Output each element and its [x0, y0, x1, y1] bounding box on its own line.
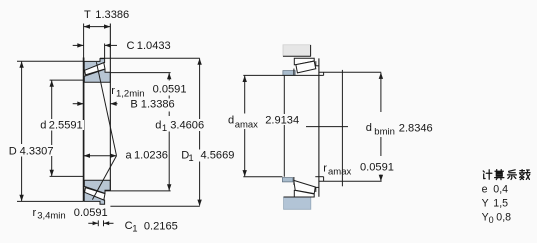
- dimension d1 arrowheads: [167, 73, 171, 79]
- cone upper: [84, 69, 110, 82]
- dimension damax vertical line: [244, 76, 246, 114]
- roller upper: [85, 63, 105, 75]
- svg-text:amax: amax: [235, 119, 258, 130]
- dimension T arrowheads: [84, 24, 90, 28]
- svg-text:0,4: 0,4: [493, 183, 508, 195]
- svg-text:amax: amax: [328, 167, 351, 178]
- shaft shoulder piece lower: [282, 178, 293, 182]
- bearing lower row cross-section: [84, 180, 110, 204]
- shaft seat line lower right: [315, 176, 323, 178]
- svg-text:B: B: [130, 99, 137, 111]
- svg-text:3.4606: 3.4606: [170, 119, 204, 131]
- char suan: [495, 170, 504, 180]
- cone rib bottom line lower right: [315, 186, 319, 188]
- cone front face lower right: [293, 177, 295, 185]
- dimension d1 top extension: [105, 72, 170, 74]
- svg-text:0: 0: [489, 215, 494, 225]
- dimension D1 top extension: [100, 57, 200, 59]
- dimension D vertical line: [21, 62, 23, 144]
- svg-text:0.0591: 0.0591: [360, 161, 394, 173]
- extension line vertical right: [341, 70, 343, 186]
- cup lower: [84, 192, 104, 204]
- dimension d bottom extension: [50, 175, 84, 177]
- cone rib top line upper right: [315, 65, 319, 67]
- svg-text:0.0591: 0.0591: [74, 207, 108, 219]
- wire left face extension line upper thin: [83, 24, 85, 58]
- char ji: [483, 170, 492, 179]
- shaft seat line upper: [243, 74, 323, 76]
- svg-text:r: r: [323, 163, 327, 175]
- chinese title 计算系数: [483, 170, 530, 180]
- svg-text:d: d: [228, 115, 234, 127]
- dimension C1 right arrow tail: [104, 222, 114, 224]
- svg-text:r: r: [33, 207, 37, 219]
- dimension D bottom extension: [17, 200, 84, 202]
- svg-text:2.8346: 2.8346: [399, 122, 433, 134]
- housing block upper right edge: [310, 45, 312, 56]
- dimension d1 vertical line: [168, 73, 170, 80]
- cone lower: [84, 180, 110, 193]
- dimension D1 vertical line: [199, 59, 201, 150]
- dimension T line: [84, 26, 111, 28]
- dimension C extension line: [104, 44, 106, 59]
- roller lower: [85, 188, 105, 200]
- dimension B arrowheads: [77, 102, 83, 106]
- labels left figure: [9, 9, 235, 235]
- svg-text:D: D: [9, 146, 17, 158]
- dimension D1 bottom extension: [110, 205, 199, 207]
- svg-text:1.0236: 1.0236: [134, 150, 168, 162]
- svg-text:C: C: [127, 40, 135, 52]
- dimension a line: [84, 155, 117, 157]
- dimension D top extension: [17, 60, 84, 62]
- extension line db lower: [319, 180, 382, 182]
- svg-text:0,8: 0,8: [496, 212, 511, 224]
- dimension C1 tick lines: [97, 220, 99, 226]
- shaft seat line lower left: [243, 176, 282, 178]
- char shu: [520, 170, 531, 180]
- housing block lower top edge: [284, 196, 311, 198]
- extension line db upper: [319, 71, 381, 73]
- svg-text:1.3386: 1.3386: [95, 9, 129, 21]
- dimension d1 bottom extension: [105, 190, 170, 192]
- dimension d vertical line: [51, 80, 53, 119]
- dimension D1 arrowheads: [197, 58, 201, 64]
- char xi: [508, 170, 517, 180]
- contact line lower diagonal: [92, 156, 116, 200]
- cup back chamfer step upper right: [315, 61, 317, 66]
- dimension B right arrow tail: [110, 103, 117, 105]
- svg-text:1,5: 1,5: [493, 197, 508, 209]
- shaft shoulder step lower: [323, 177, 325, 182]
- housing block upper: [283, 45, 311, 57]
- crossbar line: [306, 126, 348, 128]
- cup back chamfer step lower right: [315, 187, 317, 192]
- dimension C1 arrowheads: [93, 221, 98, 225]
- contact line upper diagonal: [96, 62, 116, 156]
- svg-text:r: r: [111, 85, 115, 97]
- svg-text:1: 1: [188, 153, 193, 164]
- housing block lower: [284, 197, 311, 209]
- svg-text:2.5591: 2.5591: [49, 119, 83, 131]
- svg-text:1.3386: 1.3386: [141, 99, 175, 111]
- dimension a arrowheads: [84, 154, 90, 158]
- svg-text:d: d: [40, 119, 46, 131]
- svg-text:1.0433: 1.0433: [137, 40, 171, 52]
- svg-text:Y: Y: [482, 197, 489, 209]
- housing block upper bottom edge: [283, 55, 311, 57]
- dimension dbmin arrowheads: [379, 73, 383, 79]
- bearing upper row cross-section: [84, 59, 110, 83]
- svg-text:T: T: [84, 9, 91, 21]
- dimension C left arrow tail: [73, 44, 84, 46]
- svg-text:1: 1: [162, 123, 167, 134]
- svg-text:e: e: [482, 183, 488, 195]
- shaft shoulder face line left: [283, 75, 285, 176]
- white boxes under right labels: [228, 114, 394, 172]
- dimension damax arrowheads: [243, 76, 247, 82]
- dimension d arrowheads: [50, 80, 54, 86]
- svg-text:2.9134: 2.9134: [265, 115, 299, 127]
- shaft shoulder step upper: [323, 72, 325, 75]
- svg-text:bmin: bmin: [374, 126, 395, 137]
- wire left face line thick: [83, 58, 85, 202]
- dimension B left arrow tail: [73, 103, 84, 105]
- white boxes under overlapping labels: [8, 119, 235, 162]
- cone back face line right figure: [318, 58, 320, 196]
- arrowheads right figure: [243, 73, 384, 182]
- svg-text:0.0591: 0.0591: [153, 84, 187, 96]
- dimension dbmin vertical line: [380, 73, 382, 112]
- svg-text:3,4min: 3,4min: [37, 210, 66, 221]
- svg-text:d: d: [366, 122, 372, 134]
- svg-text:4.3307: 4.3307: [20, 146, 54, 158]
- dimension C arrowheads: [77, 43, 83, 47]
- dimension d top extension: [50, 79, 84, 81]
- svg-text:a: a: [126, 150, 133, 162]
- svg-text:1: 1: [132, 224, 137, 235]
- svg-text:4.5669: 4.5669: [201, 150, 235, 162]
- dimension C1 left arrow tail: [88, 222, 98, 224]
- cup upper: [84, 59, 104, 71]
- svg-text:0.2165: 0.2165: [144, 221, 178, 233]
- dimension C right arrow tail: [105, 44, 117, 46]
- wire right face extension line: [109, 24, 111, 191]
- roller outline lower right: [294, 180, 316, 193]
- arrowheads left figure: [19, 24, 201, 225]
- cone front face upper right: [293, 69, 295, 76]
- dimension D arrowheads: [19, 61, 23, 67]
- svg-text:d: d: [155, 119, 161, 131]
- roller outline upper right: [296, 61, 316, 73]
- cup outline lower right: [294, 190, 314, 197]
- labels right figure: [228, 115, 433, 178]
- cup outline upper right: [294, 58, 314, 64]
- shaft shoulder piece upper: [283, 71, 295, 76]
